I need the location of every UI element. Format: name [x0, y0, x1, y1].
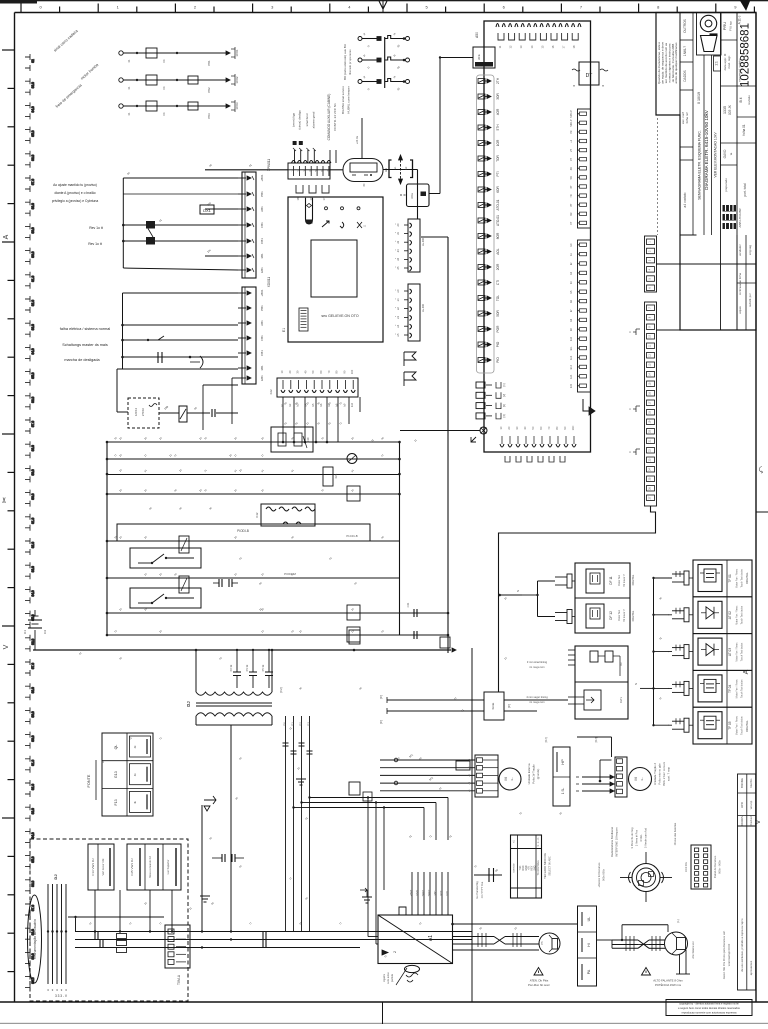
svg-text:04.0: 04.0	[31, 348, 35, 354]
svg-text:ATO-01: ATO-01	[496, 199, 500, 210]
svg-text:Iso Parada 6kg: Iso Parada 6kg	[475, 881, 479, 899]
svg-text:CB1: CB1	[260, 350, 264, 356]
svg-text:02: 02	[31, 59, 35, 63]
svg-text:Chave das baterias: Chave das baterias	[673, 822, 677, 845]
svg-text:KEY: KEY	[532, 865, 534, 870]
svg-text:1C03: 1C03	[235, 102, 239, 110]
reference contact stub 3	[358, 80, 362, 84]
bus end terminal	[440, 637, 450, 648]
svg-text:UL: UL	[587, 917, 591, 922]
top ruler ticks	[20, 4, 22, 13]
svg-text:01.0: 01.0	[31, 759, 35, 765]
svg-text:0T: 0T	[569, 221, 573, 224]
svg-text:FB1: FB1	[260, 335, 264, 341]
svg-text:AOL: AOL	[496, 248, 500, 255]
svg-text:preparado: preparado	[724, 178, 728, 192]
svg-text:SPD-P: SPD-P	[569, 110, 573, 118]
coil box K12	[261, 504, 315, 526]
svg-text:DIAGRAMA ELETR. 6415-10V50 10k: DIAGRAMA ELETR. 6415-10V50 10kV	[704, 109, 709, 190]
svg-text:A 11 e: A 11 e	[738, 15, 742, 24]
caps above transformer	[236, 650, 238, 672]
svg-text:e seguro bem como todos demais: e seguro bem como todos demais direitos …	[678, 1006, 740, 1010]
control unit handle slot	[306, 198, 313, 224]
svg-text:[DJ]: [DJ]	[544, 737, 548, 742]
svg-text:partida: partida	[390, 973, 394, 981]
long box PIODI-B	[117, 524, 370, 541]
bus line L8	[107, 612, 448, 614]
svg-text:APR: APR	[740, 802, 744, 808]
svg-text:02.0: 02.0	[31, 542, 35, 548]
user instrumentation dashed box	[30, 839, 188, 1001]
svg-text:port. total: port. total	[743, 183, 747, 197]
svg-text:seu GELIEVE.ON OTO: seu GELIEVE.ON OTO	[321, 314, 358, 318]
fuse F2	[146, 75, 157, 85]
user instrumentation oval label	[28, 895, 42, 983]
module input connectors	[672, 573, 684, 575]
transformer T1 primary	[195, 650, 197, 692]
bottom bus junctions	[47, 930, 49, 932]
fuse F3	[146, 101, 157, 111]
A50 right ladder strip 2	[578, 240, 591, 392]
svg-text:F25 VW1 DJ: F25 VW1 DJ	[130, 858, 134, 876]
svg-text:rio mega turn: rio mega turn	[529, 665, 545, 669]
svg-text:VER ELEV.MONTACAO 10kV: VER ELEV.MONTACAO 10kV	[714, 132, 718, 178]
warning triangle LS2	[642, 968, 651, 976]
svg-text:MID-P: MID-P	[569, 119, 573, 127]
svg-text:03.0: 03.0	[31, 82, 35, 88]
svg-text:AB1: AB1	[260, 206, 264, 212]
svg-text:0 10/19: 0 10/19	[697, 92, 701, 104]
svg-text:P3 3k: P3 3k	[245, 664, 249, 671]
svg-text:mod. regr.: mod. regr.	[727, 55, 731, 69]
fuse F32	[179, 576, 189, 593]
revision table (right edge)	[738, 774, 756, 826]
svg-text:S: S	[516, 590, 520, 592]
svg-text:Motor Fan / Resrc: Motor Fan / Resrc	[736, 678, 739, 698]
meter M2 on L2	[347, 454, 357, 464]
svg-text:27C10: 27C10	[141, 407, 145, 416]
svg-text:Rev 1o tt: Rev 1o tt	[88, 242, 102, 246]
svg-text:diante A (proviso) e o braião: diante A (proviso) e o braião	[54, 191, 95, 195]
flag symbol 2	[404, 372, 416, 386]
svg-text:08.0: 08.0	[31, 445, 35, 451]
instrument box F25 VW1	[127, 844, 181, 890]
stub vertical bus	[384, 37, 386, 88]
tap to speaker LS2	[622, 924, 668, 926]
contact tick marks on output	[477, 933, 479, 947]
svg-text:TECLADO MOD 00x: TECLADO MOD 00x	[543, 853, 547, 879]
module DF 12	[586, 604, 604, 628]
svg-text:03.0: 03.0	[31, 566, 35, 572]
svg-text:Motor Fan / Resrc: Motor Fan / Resrc	[736, 642, 739, 662]
reference contact stub 2	[358, 58, 362, 62]
bundle taps to amp inputs	[367, 798, 369, 937]
svg-text:07.0: 07.0	[31, 179, 35, 185]
TXM-A connector	[165, 925, 190, 968]
caps on bottom bus	[94, 932, 96, 940]
svg-text:1 SL: 1 SL	[561, 787, 565, 794]
svg-text:P02: P02	[207, 87, 211, 93]
section divider vertical	[471, 648, 473, 1002]
fuse F50 on bus	[349, 630, 360, 644]
svg-text:QL: QL	[114, 745, 118, 750]
svg-text:FIU typ: FIU typ	[729, 21, 733, 31]
svg-text:Motor Fan / Resrc: Motor Fan / Resrc	[736, 605, 739, 625]
svg-text:12C13: 12C13	[134, 407, 138, 416]
svg-text:000x - 000x: 000x - 000x	[718, 860, 722, 874]
plug connector X5	[389, 160, 392, 178]
svg-text:1C: 1C	[499, 426, 503, 429]
svg-text:b10: b10	[570, 336, 573, 341]
svg-text:HUBNL cone keeper: HUBNL cone keeper	[347, 86, 351, 113]
A50 bottom bracket ticks	[505, 456, 510, 462]
svg-text:E1: E1	[282, 328, 286, 332]
svg-text:1335: 1335	[723, 106, 727, 114]
bottom bus lines	[75, 931, 472, 933]
terminal strip X60 upper	[645, 236, 657, 292]
svg-text:antes de qualquer modificacao: antes de qualquer modificacao	[674, 42, 678, 83]
ABB logo	[723, 205, 737, 212]
svg-text:1C02: 1C02	[235, 76, 239, 84]
instrument boxes down wires	[94, 890, 96, 931]
wires into XPW1	[122, 178, 124, 268]
svg-text:TOR: TOR	[496, 154, 500, 161]
svg-text:Unidade Tração 2: Unidade Tração 2	[653, 763, 657, 786]
svg-text:DIGITAL: DIGITAL	[631, 610, 635, 621]
wire control area to junction circle	[400, 430, 480, 432]
svg-text:DIGITAL: DIGITAL	[631, 574, 635, 585]
svg-text:S: S	[634, 683, 638, 685]
top-right corner mark	[740, 0, 750, 10]
cap C41 on L8	[413, 609, 415, 617]
upper pair feed bus	[537, 581, 539, 617]
svg-text:1:1: 1:1	[715, 61, 719, 66]
svg-text:M: M	[633, 777, 638, 780]
svg-text:Touch Taxi dados: Touch Taxi dados	[741, 679, 744, 698]
A50 right ladder strip 1	[578, 109, 591, 228]
svg-text:total interrupt 00:00: total interrupt 00:00	[727, 943, 731, 966]
svg-text:bkw/hrs: bkw/hrs	[749, 778, 753, 788]
signal bundle D0-D3 vertical	[285, 716, 287, 931]
bundle capacitors	[283, 742, 289, 744]
amp top tap wire	[451, 923, 454, 926]
svg-text:3~: 3~	[510, 777, 514, 781]
LS2 output wires down	[679, 955, 681, 974]
svg-text:4OR: 4OR	[496, 108, 500, 115]
svg-text:C41: C41	[406, 602, 410, 607]
svg-text:Ao ajuste mantido tu (proviso): Ao ajuste mantido tu (proviso)	[53, 183, 97, 187]
fuse F22 on L4	[347, 486, 360, 501]
terminal strip bracket labels	[633, 329, 640, 335]
svg-text:+BAT: +BAT	[409, 889, 413, 896]
svg-text:checked: checked	[749, 816, 753, 826]
upper pair input connectors	[555, 576, 567, 578]
wire rail into dashed aux	[117, 368, 238, 370]
svg-text:arquiv: arquiv	[738, 306, 742, 314]
svg-text:05.0: 05.0	[31, 856, 35, 862]
svg-text:COMANDO AUXILIAR (CABINE): COMANDO AUXILIAR (CABINE)	[327, 94, 331, 141]
terminal X3	[222, 105, 226, 107]
svg-text:n50a: n50a	[411, 193, 414, 199]
svg-text:D0: D0	[283, 722, 287, 726]
module DF 11	[586, 569, 604, 593]
title block col2 cells	[679, 13, 681, 331]
svg-text:[F2]: [F2]	[279, 687, 283, 692]
svg-text:sinal farol: sinal farol	[305, 113, 309, 126]
svg-text:3B1: 3B1	[260, 253, 264, 259]
bus line L3	[107, 474, 400, 476]
svg-text:[C]: [C]	[507, 704, 511, 708]
svg-text:6OR: 6OR	[496, 186, 500, 193]
svg-text:A+DD: A+DD	[421, 303, 425, 312]
svg-text:Instrumentação do Usuário: Instrumentação do Usuário	[33, 919, 37, 959]
switch box S2	[130, 588, 201, 608]
svg-text:113: 113	[23, 629, 27, 634]
relay K4 small group	[148, 336, 164, 340]
svg-text:CTI: CTI	[496, 280, 500, 285]
svg-text:DJ: DJ	[186, 701, 191, 707]
fuse trio bottom bus	[117, 934, 127, 939]
svg-text:ATO-01: ATO-01	[496, 215, 500, 226]
svg-text:Motor Taxi: Motor Taxi	[618, 575, 621, 586]
svg-text:A50: A50	[475, 32, 479, 38]
svg-text:Blr mover P: Blr mover P	[623, 574, 626, 587]
svg-text:(grande): (grande)	[536, 769, 540, 780]
svg-text:DX1: DX1	[203, 208, 212, 213]
svg-text:RXD: RXD	[523, 865, 525, 870]
svg-text:Motor Taxi: Motor Taxi	[618, 610, 621, 621]
svg-text:Schaltungs master ds mais: Schaltungs master ds mais	[62, 343, 108, 347]
control unit A52 outline	[288, 197, 383, 342]
svg-text:[C]: [C]	[379, 695, 383, 699]
svg-text:Alto falante ext: Alto falante ext	[691, 941, 695, 958]
svg-text:PB1: PB1	[260, 191, 264, 197]
connector XPW1 (left strip 1)	[242, 172, 256, 278]
svg-text:10C: 10C	[571, 425, 575, 430]
svg-text:ABB LTDA BR: ABB LTDA BR	[738, 208, 742, 228]
A50 top pin row	[496, 24, 499, 28]
svg-text:[2]: [2]	[502, 394, 506, 397]
transformer T1 secondary	[196, 713, 272, 716]
svg-text:BUZINA sinal sonoro: BUZINA sinal sonoro	[341, 86, 345, 114]
svg-text:GND: GND	[415, 890, 419, 896]
svg-text:08.0: 08.0	[31, 687, 35, 693]
title cell vertical rules	[703, 55, 705, 235]
connector X22 (bottom strip of control unit)	[277, 378, 358, 397]
motor unit 2 connector	[615, 757, 627, 797]
svg-text:06.0: 06.0	[31, 396, 35, 402]
svg-text:+B01: +B01	[260, 174, 264, 181]
motor unit 1 connector	[475, 755, 498, 797]
svg-text:3C: 3C	[515, 426, 519, 429]
svg-text:POTÊNCIA 15W rms: POTÊNCIA 15W rms	[655, 982, 682, 987]
module TF 01	[693, 560, 752, 597]
bus line L2	[107, 458, 400, 460]
svg-text:D3: D3	[307, 722, 311, 726]
speaker LS2	[665, 932, 688, 955]
svg-text:D2: D2	[299, 722, 303, 726]
svg-text:06.0: 06.0	[31, 638, 35, 644]
svg-text:som aviso: som aviso	[386, 972, 390, 984]
terminal X1	[222, 52, 226, 54]
terminal squares on X21 wires	[293, 141, 297, 145]
svg-text:01.0: 01.0	[31, 275, 35, 281]
svg-text:TF 04: TF 04	[728, 684, 732, 693]
pilot wire W3	[119, 104, 123, 108]
svg-text:03.0: 03.0	[31, 808, 35, 814]
transformer T1 core	[196, 702, 272, 704]
HP box	[553, 747, 570, 806]
instrument wires 5x vertical	[47, 884, 49, 984]
connector XDO-B (right strip 2 of control unit)	[408, 284, 420, 341]
svg-text:[DJ]: [DJ]	[594, 737, 598, 742]
svg-text:DADOS: DADOS	[683, 70, 687, 81]
svg-text:[3]: [3]	[502, 404, 506, 407]
svg-text:PA: PA	[587, 969, 591, 974]
svg-text:3OR: 3OR	[496, 93, 500, 100]
speaker LS1	[539, 933, 560, 954]
pilot wire W2	[119, 78, 123, 82]
contact K3	[188, 102, 198, 110]
I/O block A50 outline	[484, 21, 591, 452]
svg-text:09.0: 09.0	[31, 469, 35, 475]
middle relay box lower cell	[584, 690, 601, 710]
motor2 input wires	[582, 776, 615, 778]
svg-text:04.0: 04.0	[31, 832, 35, 838]
svg-text:XC2 00x: XC2 00x	[684, 861, 688, 872]
wire from strip bottom to fonte	[499, 506, 656, 692]
svg-text:02.0: 02.0	[31, 300, 35, 306]
control unit top wire labels	[294, 150, 296, 163]
svg-text:POR: POR	[496, 325, 500, 333]
svg-text:2C: 2C	[507, 426, 511, 429]
svg-text:5C: 5C	[531, 426, 535, 429]
svg-text:00.0: 00.0	[31, 251, 35, 257]
svg-text:P5: P5	[540, 941, 544, 945]
left ruler ticks	[2, 49, 15, 51]
svg-text:SPK1: SPK1	[421, 889, 425, 896]
svg-text:+B01: +B01	[260, 289, 264, 296]
svg-text:BD (cabo eletrodo) aux BU: BD (cabo eletrodo) aux BU	[343, 44, 347, 80]
svg-text:P2 3k: P2 3k	[229, 664, 233, 671]
svg-text:05.0: 05.0	[31, 372, 35, 378]
right edge description cells	[738, 826, 756, 990]
svg-text:folha ref: folha ref	[685, 112, 689, 123]
svg-text:TX-RXM 60va: TX-RXM 60va	[537, 860, 540, 876]
svg-text:09.0: 09.0	[31, 227, 35, 233]
logo circle	[700, 15, 716, 31]
svg-text:rio mega turn: rio mega turn	[529, 700, 545, 704]
svg-text:102: 102	[43, 629, 47, 634]
motor M1	[499, 768, 521, 790]
fuse F41 on L8	[347, 605, 360, 620]
DT filter box	[579, 62, 599, 85]
svg-text:31: 31	[127, 112, 131, 116]
caps pair mid instrument	[221, 854, 223, 862]
ground symbol tap	[296, 779, 306, 785]
svg-text:h - n - m: h - n - m	[538, 838, 540, 847]
svg-text:PTI: PTI	[496, 171, 500, 176]
amplifier top pin wires	[411, 872, 413, 915]
upper module pair outer	[575, 563, 630, 633]
svg-text:INTERFONE 10 frequen: INTERFONE 10 frequen	[615, 827, 619, 857]
wire X5 down to XDO-A	[417, 170, 419, 220]
svg-text:000x 000x: 000x 000x	[602, 868, 606, 881]
right border section tick	[756, 511, 768, 513]
amplifier left input wires	[368, 936, 378, 938]
svg-text:Polia retorno gde: Polia retorno gde	[658, 763, 662, 785]
wire AFE down	[440, 57, 473, 59]
svg-text:vendedor: vendedor	[738, 244, 742, 256]
svg-text:9C: 9C	[563, 426, 567, 429]
svg-text:5R: 5R	[569, 176, 573, 179]
svg-text:substit. por: substit. por	[748, 293, 752, 307]
svg-text:CB1: CB1	[260, 238, 264, 244]
svg-text:6T: 6T	[569, 185, 573, 188]
svg-text:eng.seg: eng.seg	[748, 245, 752, 255]
svg-text:4 mm segur timing: 4 mm segur timing	[526, 695, 548, 699]
ground arrow mid	[204, 796, 216, 811]
svg-text:TF 01: TF 01	[728, 574, 732, 583]
svg-text:b14: b14	[570, 374, 573, 379]
control unit barcode label	[299, 308, 308, 331]
svg-text:00.0: 00.0	[31, 735, 35, 741]
svg-text:FB1: FB1	[260, 222, 264, 228]
svg-text:08.0: 08.0	[31, 203, 35, 209]
svg-text:PRU: PRU	[722, 22, 727, 31]
control unit indicator LEDs	[325, 207, 328, 210]
svg-text:F13: F13	[114, 799, 118, 805]
svg-text:AT 03: AT 03	[728, 648, 732, 656]
svg-text:F21: F21	[334, 473, 338, 478]
battery G1	[34, 630, 36, 650]
svg-text:DF 11: DF 11	[609, 576, 613, 585]
svg-text:Motor Fan / Resrc: Motor Fan / Resrc	[736, 715, 739, 735]
buzzer H1 (oval component)	[343, 159, 383, 182]
bus line L4	[107, 493, 400, 495]
svg-text:M: M	[503, 777, 508, 780]
svg-text:PIODI-B: PIODI-B	[237, 529, 249, 533]
svg-text:3 mm sinal timing: 3 mm sinal timing	[527, 660, 548, 664]
svg-text:B 4: B 4	[739, 97, 743, 102]
svg-text:DIGITAL: DIGITAL	[745, 720, 749, 732]
svg-text:XPW011: XPW011	[267, 159, 271, 172]
svg-text:7C: 7C	[547, 426, 551, 429]
svg-text:Touch Taxi dados: Touch Taxi dados	[741, 642, 744, 661]
svg-text:Radiotelefonia Bordkanal: Radiotelefonia Bordkanal	[610, 827, 614, 857]
svg-text:1NKL?: 1NKL?	[683, 46, 687, 56]
svg-text:7R: 7R	[569, 194, 573, 197]
svg-text:b15: b15	[570, 383, 573, 388]
svg-text:ta: ta	[729, 152, 733, 155]
svg-text:Pwr-Mon fkt resrc: Pwr-Mon fkt resrc	[528, 983, 551, 987]
svg-text:8T: 8T	[569, 203, 573, 206]
svg-text:100: 100	[350, 369, 354, 374]
bottom edge scan line	[0, 1023, 768, 1024]
module AT 02	[693, 597, 752, 634]
svg-text:FONTE: FONTE	[87, 774, 91, 787]
wires X22 down to bus	[282, 397, 284, 442]
connector XDO-A (right strip 1 of control unit)	[408, 219, 420, 272]
A50 reset arrow	[583, 399, 589, 411]
bus line L6	[107, 540, 400, 542]
svg-text:PTT: PTT	[439, 890, 443, 895]
control unit small icons	[322, 221, 329, 227]
rotary dial	[632, 864, 660, 892]
svg-text:00.0: 00.0	[31, 493, 35, 499]
svg-text:Mesa comando DJ: Mesa comando DJ	[148, 855, 152, 877]
svg-text:TXM-A: TXM-A	[177, 974, 181, 985]
